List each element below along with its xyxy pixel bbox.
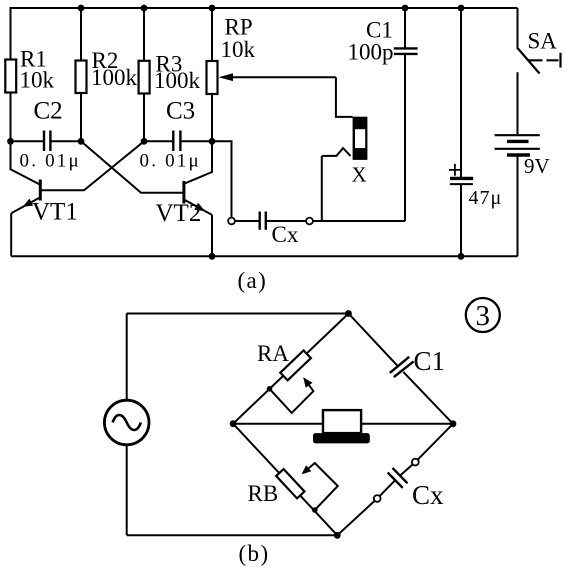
svg-text:100p: 100p	[348, 40, 394, 65]
figure number 3	[466, 298, 500, 332]
svg-text:VT2: VT2	[156, 200, 202, 227]
open terminal left of Cx	[228, 218, 235, 225]
wire bottom ground rail	[11, 255, 517, 257]
capacitor Cx (bridge)	[388, 468, 408, 488]
resistor RA body	[280, 350, 311, 380]
wire R2 column bottom	[80, 93, 82, 141]
node top of bridge	[345, 310, 352, 317]
capacitor C2	[44, 131, 50, 152]
wire Cx right node to C1 bottom	[313, 220, 405, 222]
node left of bridge	[230, 420, 237, 427]
wire bridge middle left	[233, 423, 323, 425]
wire switch to battery	[517, 72, 519, 134]
potentiometer RP	[207, 61, 218, 94]
svg-text:RB: RB	[248, 481, 279, 506]
resistor R3	[139, 61, 150, 94]
svg-text:VT1: VT1	[32, 199, 78, 226]
wire R2 column top	[80, 8, 82, 61]
bridge arm top-right with capacitor C1	[349, 314, 454, 424]
svg-text:10k: 10k	[221, 37, 256, 62]
RA wiper loop wire	[270, 385, 314, 413]
resistor R1	[5, 60, 16, 93]
svg-text:100k: 100k	[91, 65, 138, 90]
transistor VT1	[11, 141, 41, 213]
wire loop left upper	[126, 314, 128, 401]
wire collector node to Cx left terminal	[212, 141, 232, 217]
wire C3 left lead	[144, 140, 173, 142]
sensor capacitor plate (probe)	[313, 410, 370, 443]
wire piezo branch vertical	[321, 156, 323, 221]
transistor VT2	[184, 141, 212, 215]
resistor R2	[76, 61, 87, 94]
wire RP wiper lead	[232, 76, 336, 78]
wire battery to bottom rail	[517, 157, 519, 257]
wire 47u column bottom	[460, 184, 462, 256]
RB wiper loop wire	[309, 463, 338, 510]
svg-text:100k: 100k	[154, 68, 201, 93]
wire C2 right lead	[50, 140, 81, 142]
plus polarity mark	[449, 164, 462, 176]
svg-text:SA: SA	[528, 29, 558, 54]
wire Cx left lead	[235, 220, 260, 222]
wire left column (R1 branch)	[10, 7, 12, 141]
svg-text:Cx: Cx	[272, 222, 299, 247]
wire 47u column top	[460, 8, 462, 177]
svg-text:X: X	[352, 163, 367, 187]
svg-text:C3: C3	[166, 98, 195, 125]
RA wiper arrowhead	[303, 377, 312, 388]
svg-text:(a): (a)	[238, 268, 268, 293]
wire RP wiper to crystal top	[336, 77, 353, 117]
RB wiper arrowhead	[302, 465, 312, 474]
wire VT1 emitter down	[10, 213, 12, 256]
node right of bridge	[450, 420, 457, 427]
svg-text:(b): (b)	[239, 541, 270, 566]
svg-text:RA: RA	[257, 341, 289, 366]
wire R3 column top	[143, 8, 145, 61]
capacitor Cx	[260, 212, 266, 230]
open terminal lower on Cx arm	[374, 495, 381, 502]
node junction dots middle row	[7, 138, 14, 145]
bridge arm bottom-right with Cx	[337, 424, 453, 536]
svg-text:10k: 10k	[20, 68, 55, 93]
node dot on RA arm	[267, 386, 273, 392]
wire loop left lower	[126, 445, 128, 536]
wire top supply rail	[11, 7, 518, 9]
open terminal upper on Cx arm	[412, 459, 419, 466]
wire C3 right lead	[180, 140, 212, 142]
crystal X (piezo sounder)	[353, 117, 368, 160]
resistor RB body	[276, 469, 304, 498]
capacitor C4 47u electrolytic	[450, 178, 473, 184]
wire loop top	[127, 313, 349, 315]
svg-text:47μ: 47μ	[469, 187, 503, 209]
wire Cx right lead	[266, 220, 306, 222]
battery GB 9V	[495, 135, 540, 155]
wire C2 left lead	[11, 140, 45, 142]
bridge arm top-left (RA arm)	[233, 314, 348, 424]
wire bridge middle right	[361, 423, 453, 425]
contact zigzag to crystal	[322, 148, 351, 156]
svg-text:C2: C2	[34, 98, 63, 125]
RP wiper arrowhead	[219, 73, 234, 81]
svg-text:RP: RP	[225, 15, 253, 40]
wire R3 column bottom	[143, 94, 145, 142]
node dot on RB arm	[312, 507, 318, 513]
wire C1 column top	[404, 8, 406, 48]
wire cross-coupling C3 to VT1 base	[41, 141, 144, 190]
node junction dots bottom rail	[209, 253, 216, 260]
capacitor C1 (bridge)	[390, 357, 414, 377]
switch SA	[518, 8, 561, 74]
svg-text:0. 01μ: 0. 01μ	[140, 151, 201, 172]
wire RP column top	[211, 8, 213, 61]
svg-text:C1: C1	[414, 346, 446, 376]
capacitor C1	[394, 48, 418, 54]
bridge arm bottom-left (RB arm)	[233, 424, 337, 536]
open terminal right of Cx	[306, 218, 313, 225]
node bottom of bridge	[334, 532, 341, 539]
capacitor C3	[173, 131, 180, 152]
svg-text:3: 3	[476, 300, 491, 332]
AC source G	[104, 400, 149, 445]
node junction dots top rail	[78, 5, 85, 12]
svg-text:9V: 9V	[524, 154, 550, 178]
svg-text:Cx: Cx	[412, 480, 444, 510]
wire C1 column bottom	[404, 54, 406, 221]
wire loop bottom	[127, 534, 338, 536]
wire RP column bottom	[211, 94, 213, 141]
wire cross-coupling C2 to VT2 base	[81, 141, 183, 192]
svg-text:0. 01μ: 0. 01μ	[20, 151, 81, 172]
wire VT2 emitter down	[211, 215, 213, 256]
